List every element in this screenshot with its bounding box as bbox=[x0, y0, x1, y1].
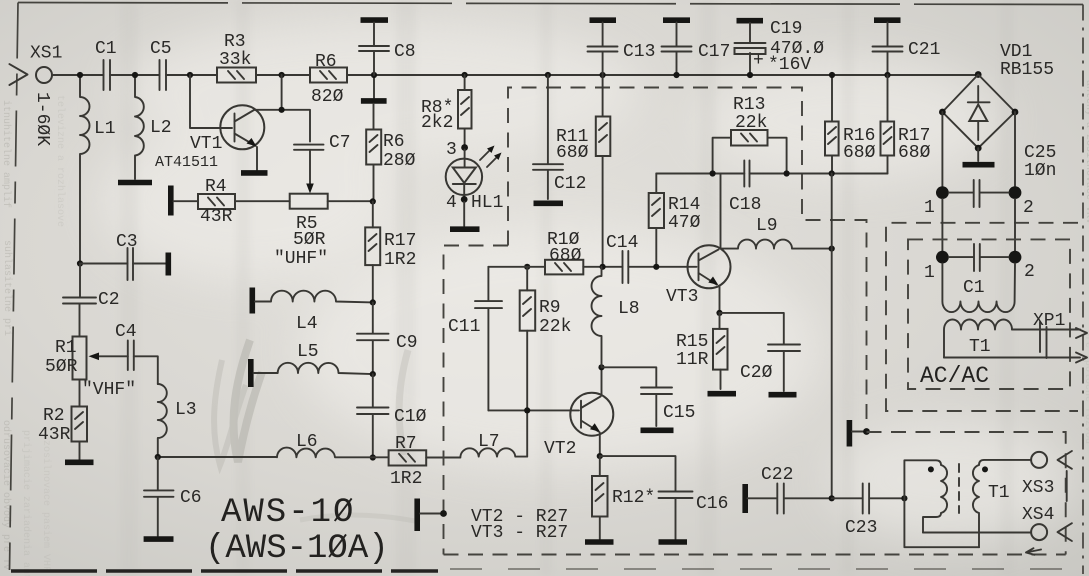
svg-text:C22: C22 bbox=[761, 465, 793, 485]
dashed module box AWS bbox=[444, 88, 1066, 555]
connector XS1 bbox=[9, 44, 62, 147]
terminal 1 row1 bbox=[936, 186, 949, 199]
inductor L7 bbox=[460, 432, 527, 457]
svg-text:"UHF": "UHF" bbox=[274, 249, 328, 269]
resistor R17 680 bbox=[881, 75, 931, 174]
capacitor C10 bbox=[357, 374, 427, 457]
capacitor C1 bbox=[95, 39, 117, 90]
svg-text:VD1: VD1 bbox=[1000, 42, 1032, 62]
dashed box AC/AC bbox=[908, 239, 1070, 389]
svg-text:R12*: R12* bbox=[612, 488, 655, 508]
wire VT3 base bbox=[688, 266, 697, 268]
svg-text:C25: C25 bbox=[1024, 143, 1056, 163]
transformer T1 output primary bbox=[904, 460, 979, 547]
svg-text:C21: C21 bbox=[908, 40, 940, 60]
svg-text:C14: C14 bbox=[606, 233, 638, 253]
svg-text:68Ø: 68Ø bbox=[843, 143, 876, 163]
svg-text:T1: T1 bbox=[988, 483, 1010, 503]
svg-text:2: 2 bbox=[1024, 262, 1035, 282]
wire terminals row1 to row2 bbox=[942, 199, 1015, 251]
wire main bus bbox=[52, 74, 978, 76]
node VT2 emitter bbox=[597, 453, 603, 459]
svg-text:R2: R2 bbox=[43, 406, 65, 426]
terminal 1 row2 bbox=[936, 251, 949, 264]
capacitor C5 bbox=[150, 39, 172, 90]
chassis bar x374 bbox=[373, 75, 375, 98]
svg-text:suhlasitelne pri: suhlasitelne pri bbox=[1, 240, 13, 336]
node L6/R7 bbox=[370, 454, 376, 460]
svg-text:C1: C1 bbox=[95, 39, 117, 59]
svg-text:11R: 11R bbox=[676, 350, 709, 370]
resistor R7 bbox=[389, 434, 461, 489]
svg-text:zosilnovace pasiem VHF a UHF: zosilnovace pasiem VHF a UHF bbox=[40, 440, 52, 576]
svg-text:1Øn: 1Øn bbox=[1024, 161, 1056, 181]
dashed box output bbox=[867, 432, 1066, 555]
svg-text:R4: R4 bbox=[205, 177, 227, 197]
resistor R3 bbox=[217, 32, 256, 83]
resistor R10 bbox=[545, 230, 623, 274]
svg-text:XS4: XS4 bbox=[1022, 505, 1054, 525]
ground under C20 bbox=[769, 392, 797, 398]
svg-text:68Ø: 68Ø bbox=[549, 246, 582, 266]
svg-text:R14: R14 bbox=[668, 195, 700, 215]
svg-text:AC/AC: AC/AC bbox=[920, 363, 989, 389]
capacitor C8 bbox=[359, 23, 416, 76]
node C12 branch bbox=[545, 72, 551, 78]
svg-text:C18: C18 bbox=[729, 195, 761, 215]
transistor VT1 bbox=[155, 75, 264, 171]
capacitor C4 bbox=[115, 322, 158, 384]
svg-text:L4: L4 bbox=[296, 314, 318, 334]
page border top bbox=[18, 3, 1083, 5]
node L2/main bbox=[132, 72, 138, 78]
dashed psu box bbox=[886, 223, 1078, 411]
svg-text:1: 1 bbox=[924, 198, 935, 218]
ground under HL1 bbox=[463, 202, 465, 226]
inductor L2 bbox=[135, 75, 172, 179]
pin 3 bbox=[461, 144, 468, 151]
ground under R2 bbox=[65, 459, 94, 465]
svg-text:XS1: XS1 bbox=[30, 44, 62, 64]
svg-text:C2Ø: C2Ø bbox=[740, 363, 773, 383]
node bridge top bbox=[975, 71, 982, 78]
wire collector node bbox=[254, 75, 310, 142]
svg-text:VT2: VT2 bbox=[544, 439, 576, 459]
svg-text:43R: 43R bbox=[38, 425, 71, 445]
capacitor C18 bbox=[729, 161, 761, 216]
connector XS3 bbox=[1022, 451, 1072, 498]
svg-text:C12: C12 bbox=[554, 174, 586, 194]
svg-text:5ØR: 5ØR bbox=[293, 230, 326, 250]
svg-text:L9: L9 bbox=[756, 216, 778, 236]
terminal bar C22 bbox=[742, 484, 748, 513]
ground top C8 bbox=[361, 17, 389, 23]
svg-text:C19: C19 bbox=[770, 19, 802, 39]
svg-text:R13: R13 bbox=[733, 95, 765, 115]
svg-text:1: 1 bbox=[924, 263, 935, 283]
ground top C21 bbox=[874, 17, 901, 23]
inductor L9 bbox=[721, 216, 832, 249]
svg-text:C11: C11 bbox=[448, 317, 480, 337]
svg-text:28Ø: 28Ø bbox=[383, 151, 416, 171]
watermark showthrough bbox=[214, 340, 420, 522]
capacitor C12 bbox=[533, 75, 586, 199]
capacitor C23 bbox=[832, 484, 905, 539]
resistor R16 bbox=[825, 75, 876, 174]
capacitor C13 bbox=[588, 23, 656, 76]
node C3 branch bbox=[77, 260, 83, 266]
resistor R6 820 bbox=[310, 52, 347, 107]
svg-text:5ØR: 5ØR bbox=[45, 357, 78, 377]
arrow mark under XS4 bbox=[1026, 548, 1041, 555]
svg-text:(AWS-1ØA): (AWS-1ØA) bbox=[205, 530, 389, 568]
side ground bar R4 bbox=[168, 186, 174, 216]
svg-text:1-6ØK: 1-6ØK bbox=[32, 92, 52, 146]
node L4 bbox=[370, 299, 376, 305]
svg-text:C15: C15 bbox=[663, 403, 695, 423]
capacitor C21 bbox=[873, 23, 941, 76]
svg-text:L2: L2 bbox=[150, 118, 172, 138]
terminal 2 row1 bbox=[1009, 186, 1022, 199]
ground under C12 bbox=[534, 201, 564, 207]
svg-text:C5: C5 bbox=[150, 39, 172, 59]
svg-text:R6: R6 bbox=[383, 132, 405, 152]
svg-text:1R2: 1R2 bbox=[384, 250, 416, 270]
resistor R9 bbox=[520, 267, 572, 457]
diode bridge VD1 RB155 bbox=[939, 42, 1054, 152]
transistor VT3 bbox=[666, 174, 731, 313]
svg-text:AT41511: AT41511 bbox=[155, 154, 218, 171]
svg-text:43R: 43R bbox=[200, 207, 233, 227]
node R10/C14/L8 bbox=[600, 264, 606, 270]
svg-text:4: 4 bbox=[446, 193, 457, 213]
wire collector node line bbox=[656, 173, 887, 175]
node C22/C23 bbox=[829, 495, 835, 501]
svg-text:82Ø: 82Ø bbox=[311, 87, 344, 107]
side chassis bar right bbox=[847, 420, 853, 447]
inductor L1 bbox=[80, 75, 116, 264]
svg-text:R17: R17 bbox=[384, 231, 416, 251]
svg-text:R9: R9 bbox=[539, 298, 561, 318]
svg-text:C2: C2 bbox=[98, 290, 120, 310]
inductor L4 bbox=[255, 291, 373, 334]
svg-text:anteny a zosilnovace VKV: anteny a zosilnovace VKV bbox=[1083, 80, 1089, 224]
node collector top bbox=[279, 72, 285, 78]
node L3/C6/L6 bbox=[155, 454, 161, 460]
svg-text:C8: C8 bbox=[394, 42, 416, 62]
svg-text:33k: 33k bbox=[219, 50, 251, 70]
svg-text:L6: L6 bbox=[296, 432, 318, 452]
transformer T1 output secondary bbox=[923, 460, 1031, 547]
svg-text:C4: C4 bbox=[115, 322, 137, 342]
node VT3 emitter bbox=[716, 310, 722, 316]
capacitor C22 bbox=[748, 465, 832, 514]
ground top C19 bbox=[737, 18, 764, 24]
svg-text:L3: L3 bbox=[175, 400, 197, 420]
page border bottom bbox=[11, 569, 438, 572]
capacitor C6 bbox=[144, 457, 202, 536]
svg-text:+: + bbox=[753, 51, 764, 71]
svg-text:RB155: RB155 bbox=[1000, 60, 1054, 80]
svg-text:AWS-1Ø: AWS-1Ø bbox=[221, 494, 355, 532]
node R14/base bbox=[653, 264, 659, 270]
node R8 branch bbox=[462, 72, 468, 78]
capacitor C9 bbox=[357, 302, 418, 374]
svg-text:C1: C1 bbox=[963, 278, 985, 298]
resistor R2 bbox=[38, 380, 87, 461]
capacitor C16 bbox=[600, 456, 729, 539]
capacitor C1 psu bbox=[949, 244, 1009, 298]
capacitor C25 bbox=[949, 143, 1057, 207]
svg-text:C3: C3 bbox=[116, 232, 138, 252]
svg-text:prijimacie zariadenia ant: prijimacie zariadenia ant bbox=[20, 430, 32, 576]
wire output column bbox=[831, 174, 833, 499]
resistor R13 bbox=[713, 95, 787, 174]
svg-text:68Ø: 68Ø bbox=[556, 143, 589, 163]
inductor L5 bbox=[254, 342, 373, 374]
svg-text:R3: R3 bbox=[224, 32, 246, 52]
node T1 primary bbox=[901, 495, 907, 501]
svg-text:L8: L8 bbox=[618, 299, 640, 319]
capacitor C20 bbox=[720, 313, 801, 391]
svg-text:22k: 22k bbox=[539, 317, 571, 337]
node R11 branch bbox=[600, 72, 606, 78]
capacitor C15 bbox=[602, 367, 696, 426]
ground under C6 bbox=[144, 536, 174, 542]
transformer T1 output core bbox=[958, 464, 960, 513]
capacitor C17 bbox=[662, 23, 731, 76]
svg-text:22k: 22k bbox=[735, 113, 767, 133]
svg-text:C17: C17 bbox=[698, 42, 730, 62]
svg-text:XS3: XS3 bbox=[1022, 478, 1054, 498]
inductor L8 bbox=[592, 267, 640, 368]
inductor L3 bbox=[158, 384, 197, 457]
pin 4 bbox=[461, 196, 468, 203]
wire node line bbox=[488, 266, 545, 268]
transformer T1 acac winding lower bbox=[944, 320, 1012, 358]
capacitor C19 electrolytic bbox=[735, 19, 825, 75]
svg-text:C6: C6 bbox=[180, 488, 202, 508]
svg-text:3: 3 bbox=[446, 140, 457, 160]
ground under L2 bbox=[118, 180, 152, 186]
transformer T1 acac winding upper bbox=[942, 264, 1015, 313]
node L9/output line bbox=[829, 246, 835, 252]
resistor R4 bbox=[174, 177, 290, 227]
svg-text:R15: R15 bbox=[676, 332, 708, 352]
node L1/main bbox=[77, 72, 83, 78]
resistor R6 280 bbox=[366, 104, 415, 202]
page border right bbox=[1082, 5, 1084, 575]
capacitor C3 bbox=[80, 232, 166, 280]
svg-text:C13: C13 bbox=[623, 42, 655, 62]
svg-text:R7: R7 bbox=[395, 434, 417, 454]
capacitor C7 bbox=[294, 133, 351, 153]
svg-text:VT3: VT3 bbox=[666, 287, 698, 307]
svg-text:*16V: *16V bbox=[768, 55, 811, 75]
node R5/R6-280 bbox=[370, 198, 376, 204]
transistor VT2 bbox=[488, 367, 613, 459]
svg-text:C1Ø: C1Ø bbox=[394, 407, 427, 427]
svg-text:VT3 - R27: VT3 - R27 bbox=[471, 523, 568, 543]
potentiometer R1 bbox=[45, 337, 87, 380]
ground under C16 bbox=[659, 539, 688, 545]
plug bar bbox=[1066, 471, 1068, 501]
side chassis bar left bbox=[414, 499, 420, 532]
svg-text:VT1: VT1 bbox=[190, 134, 222, 154]
ground top C17 bbox=[663, 17, 690, 23]
svg-text:47Ø: 47Ø bbox=[668, 213, 701, 233]
node VT1 base branch bbox=[187, 72, 193, 78]
LED arrows bbox=[480, 146, 502, 168]
svg-text:R6: R6 bbox=[315, 52, 337, 72]
ground under R15 bbox=[708, 391, 737, 397]
svg-text:2: 2 bbox=[1023, 198, 1034, 218]
svg-text:R1: R1 bbox=[55, 338, 77, 358]
capacitor C2 bbox=[63, 264, 120, 337]
svg-text:"VHF": "VHF" bbox=[82, 380, 136, 400]
side ground bar L5 bbox=[248, 359, 254, 387]
terminal 2 row2 bbox=[1009, 251, 1022, 264]
ground VT1 emitter bbox=[241, 170, 268, 176]
svg-text:1R2: 1R2 bbox=[390, 469, 422, 489]
resistor R14 bbox=[649, 174, 701, 267]
ground under R12 bbox=[585, 539, 614, 545]
svg-text:itnuhitelne amplif: itnuhitelne amplif bbox=[0, 100, 12, 208]
connector XS4 bbox=[1022, 505, 1072, 541]
connector XP1 lines bbox=[944, 311, 1087, 363]
potentiometer R5 bbox=[274, 194, 372, 269]
wiper arrow R1 bbox=[95, 355, 128, 357]
resistor R15 bbox=[676, 313, 728, 389]
side ground bar C3 bbox=[166, 253, 172, 276]
svg-text:HL1: HL1 bbox=[471, 193, 503, 213]
svg-text:C23: C23 bbox=[845, 518, 877, 538]
capacitor C11 bbox=[448, 267, 502, 411]
resistor R12* bbox=[592, 456, 655, 539]
svg-text:C9: C9 bbox=[396, 333, 418, 353]
node C11/R9 top bbox=[524, 264, 530, 270]
ground under C15 bbox=[641, 427, 674, 433]
svg-text:L7: L7 bbox=[478, 432, 500, 452]
svg-text:68Ø: 68Ø bbox=[898, 143, 931, 163]
svg-text:2k2: 2k2 bbox=[421, 113, 453, 133]
wiper arrow into R5 bbox=[309, 150, 311, 187]
resistor R11 bbox=[556, 75, 610, 267]
svg-text:C7: C7 bbox=[329, 133, 351, 153]
resistor R8* bbox=[421, 75, 472, 145]
capacitor C14 bbox=[606, 233, 688, 283]
LED HL1 bbox=[446, 150, 482, 198]
ground under bridge bbox=[977, 148, 979, 161]
svg-text:L5: L5 bbox=[297, 342, 319, 362]
svg-text:T1: T1 bbox=[969, 337, 991, 357]
svg-text:televizne a rozhlasove: televizne a rozhlasove bbox=[54, 95, 66, 227]
page border left bbox=[10, 3, 19, 571]
node VT2 collector bbox=[598, 364, 604, 370]
wire bridge to terminals bbox=[942, 112, 1015, 186]
inductor L6 bbox=[158, 432, 389, 457]
ground top C13 bbox=[590, 17, 617, 23]
svg-text:L1: L1 bbox=[94, 119, 116, 139]
side ground bar L4 bbox=[250, 288, 256, 314]
node L5 bbox=[370, 371, 376, 377]
svg-text:XP1: XP1 bbox=[1033, 311, 1065, 331]
resistor R17 1R2 bbox=[365, 201, 416, 302]
svg-text:C16: C16 bbox=[696, 494, 728, 514]
